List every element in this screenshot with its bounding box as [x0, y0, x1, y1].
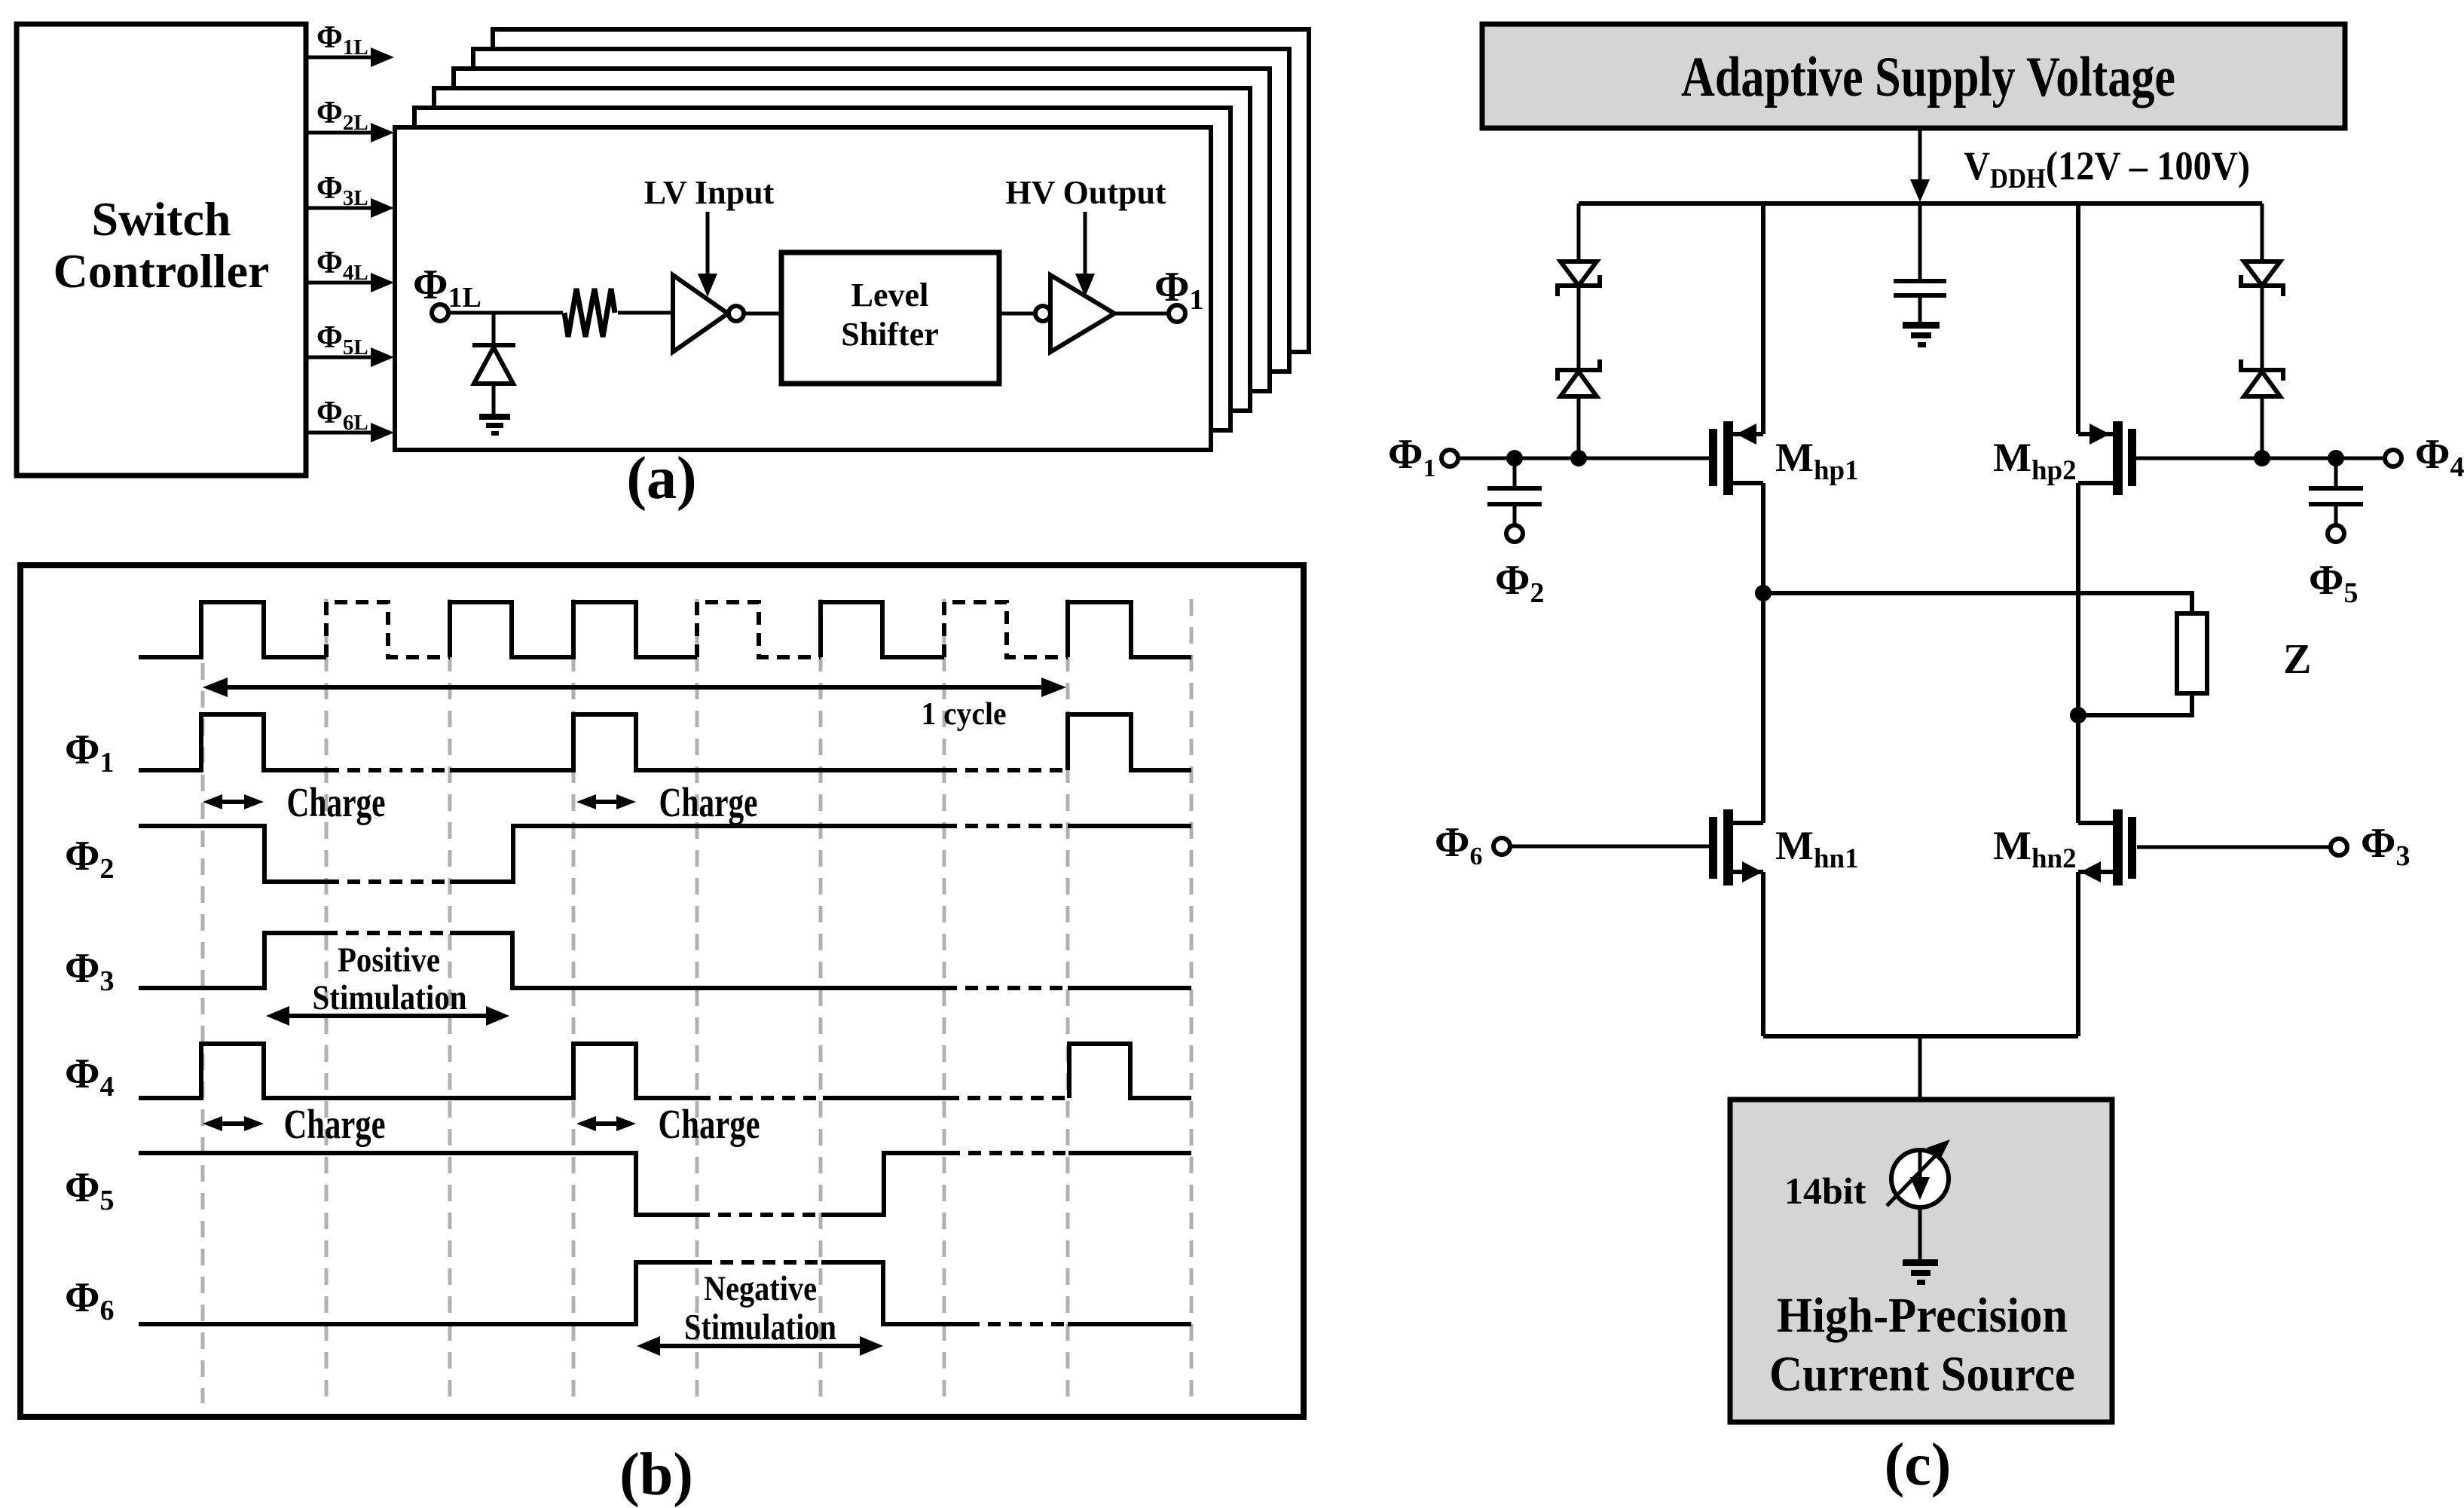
adaptive supply voltage block	[1482, 24, 2345, 128]
wire phi1 waveform dashed	[326, 768, 1068, 772]
wire phi3L output arrow	[306, 171, 394, 218]
svg-text:Charge: Charge	[284, 1101, 386, 1147]
svg-text:Shifter: Shifter	[841, 316, 939, 353]
wire charge arrow row1 right	[576, 779, 758, 825]
wire clock waveform solid	[139, 602, 1191, 657]
transistor Q1 Mhp1 PMOS	[1709, 203, 1859, 823]
wire source join	[1763, 1034, 2078, 1038]
wire positive stimulation arrow	[266, 1006, 509, 1026]
wire left branch down to zeners	[1577, 203, 1581, 262]
node drain junction Mhp2	[2070, 707, 2086, 723]
diode Z3 zener	[2241, 262, 2283, 296]
capacitor C2	[1487, 458, 1542, 542]
wire phi2 waveform solid	[139, 826, 1191, 882]
wire zener to gate line	[1577, 396, 1581, 458]
wire supply to VDDH bus with arrow	[1910, 128, 1930, 202]
transistor Q3 Mhn1 NMOS	[1709, 809, 1859, 1036]
level shifter block	[781, 252, 999, 384]
svg-text:Charge: Charge	[659, 779, 758, 825]
resistor R1	[564, 289, 615, 337]
diode Z4 zener	[2241, 359, 2283, 396]
svg-text:Positive: Positive	[338, 941, 440, 980]
svg-text:Level: Level	[851, 277, 929, 314]
capacitor C3 center to ground	[1894, 203, 1946, 323]
wire right branch down to zeners	[2261, 203, 2264, 262]
svg-text:Stimulation: Stimulation	[684, 1306, 836, 1347]
wire phi6 gate line	[1510, 845, 1709, 849]
wire phi5L output arrow	[306, 320, 394, 367]
svg-text:Z: Z	[2283, 636, 2311, 683]
transistor Q2 Mhp2 PMOS	[1993, 203, 2136, 823]
ground	[1903, 322, 1940, 347]
ground	[479, 414, 510, 436]
diode D1	[472, 345, 515, 414]
wire resistor to inverter	[618, 311, 673, 315]
wire current source to ground	[1918, 1207, 1922, 1259]
wire phi1 gate line	[1458, 457, 1710, 460]
svg-text:Controller: Controller	[53, 244, 270, 298]
node inverter2 input bubble	[1035, 306, 1050, 321]
svg-text:HV Output: HV Output	[1005, 174, 1166, 211]
diode Z2 zener	[1558, 359, 1600, 396]
svg-text:1 cycle: 1 cycle	[922, 697, 1007, 732]
node junction dot C2	[1506, 450, 1523, 466]
wire phi3 waveform dashed	[325, 933, 1068, 988]
wire 1 cycle arrow	[203, 678, 1066, 732]
op-amp U2 HV inverter	[1050, 275, 1114, 352]
wire HV output arrow	[1075, 212, 1095, 297]
wire phi4 waveform dashed	[698, 1096, 1069, 1100]
wire phi5 waveform dashed	[697, 1153, 1068, 1215]
svg-text:Switch: Switch	[92, 192, 231, 246]
svg-text:Negative: Negative	[704, 1269, 817, 1308]
diode Z1 zener	[1558, 262, 1600, 296]
transistor Q4 Mhn2 NMOS	[1993, 809, 2136, 1036]
wire phi4L output arrow	[306, 246, 394, 292]
wire drain to Z	[1763, 593, 2192, 613]
node phi1 output terminal	[1154, 264, 1203, 322]
wire phi6 waveform solid	[139, 1262, 1191, 1324]
wire diode branch	[492, 313, 496, 343]
wire charge arrow row1 left	[203, 779, 386, 825]
wire phi4 gate line	[2135, 457, 2385, 460]
stacked level-shifter cards	[395, 29, 1309, 450]
wire bubble to level shifter	[744, 312, 781, 316]
wire phi2L output arrow	[306, 96, 394, 142]
node junction dot zener left	[1570, 450, 1587, 466]
wire phi1L output arrow	[306, 20, 394, 67]
wire level shifter to bubble2	[999, 312, 1035, 316]
wire between zeners	[1577, 287, 1581, 369]
grid dashed timelines	[203, 599, 1191, 1403]
svg-text:Stimulation: Stimulation	[313, 978, 467, 1017]
current source I1	[1784, 1139, 1950, 1212]
wire input to resistor	[448, 311, 563, 315]
node phi6 terminal	[1435, 819, 1510, 870]
wire clock waveform dashed	[326, 602, 1068, 657]
node phi3 terminal	[2331, 820, 2410, 872]
timing diagram frame	[20, 565, 1304, 1417]
svg-text:Current Source: Current Source	[1769, 1347, 2075, 1402]
wire zener to gate line	[2261, 396, 2264, 458]
svg-text:LV Input: LV Input	[644, 174, 775, 211]
wire phi5 waveform solid	[139, 1153, 1191, 1215]
svg-text:14bit: 14bit	[1784, 1170, 1866, 1212]
op-amp U1 LV inverter	[673, 275, 728, 352]
svg-text:Charge: Charge	[287, 779, 386, 825]
node drain junction Mhp1	[1755, 585, 1772, 601]
svg-text:High-Precision: High-Precision	[1777, 1288, 2068, 1343]
wire phi3 gate line	[2137, 846, 2331, 849]
wire phi2 waveform dashed	[326, 826, 1068, 882]
node junction dot zener right	[2254, 450, 2270, 466]
wire charge arrow row2 right	[576, 1101, 760, 1147]
wire inverter2 to output	[1114, 312, 1169, 316]
node junction dot C4	[2328, 450, 2344, 466]
high precision current source block	[1730, 1100, 2112, 1422]
svg-text:Adaptive Supply Voltage: Adaptive Supply Voltage	[1681, 46, 2175, 109]
switch controller block	[17, 24, 306, 476]
svg-text:(a): (a)	[626, 445, 696, 512]
node inverter bubble	[729, 306, 744, 321]
wire VDDH bus	[1579, 201, 2262, 206]
wire phi4 waveform solid	[139, 1044, 1191, 1098]
label negative stimulation	[684, 1269, 836, 1347]
label high precision current source	[1769, 1288, 2075, 1402]
wire phi6L output arrow	[306, 396, 394, 442]
wire between zeners	[2261, 287, 2264, 369]
wire phi3 waveform solid	[139, 933, 1191, 988]
svg-text:(b): (b)	[619, 1442, 693, 1508]
label positive stimulation	[313, 941, 467, 1017]
svg-text:(c): (c)	[1885, 1432, 1952, 1498]
node phi1 terminal	[1388, 431, 1458, 482]
wire Z bottom to Mhp2 drain	[2078, 693, 2192, 715]
capacitor C4	[2309, 458, 2363, 542]
svg-text:Charge: Charge	[659, 1101, 760, 1147]
node phi1L input terminal	[413, 262, 481, 321]
wire phi6 waveform dashed	[699, 1262, 1068, 1324]
wire charge arrow row2 left	[203, 1101, 386, 1147]
wire phi1 waveform solid	[139, 714, 1191, 770]
resistor Z load	[2177, 613, 2311, 693]
ground	[1903, 1259, 1938, 1285]
wire tail to current source	[1918, 1036, 1922, 1152]
wire LV input arrow	[698, 212, 717, 297]
wire negative stimulation arrow	[637, 1336, 883, 1356]
node phi4 terminal	[2385, 431, 2464, 483]
